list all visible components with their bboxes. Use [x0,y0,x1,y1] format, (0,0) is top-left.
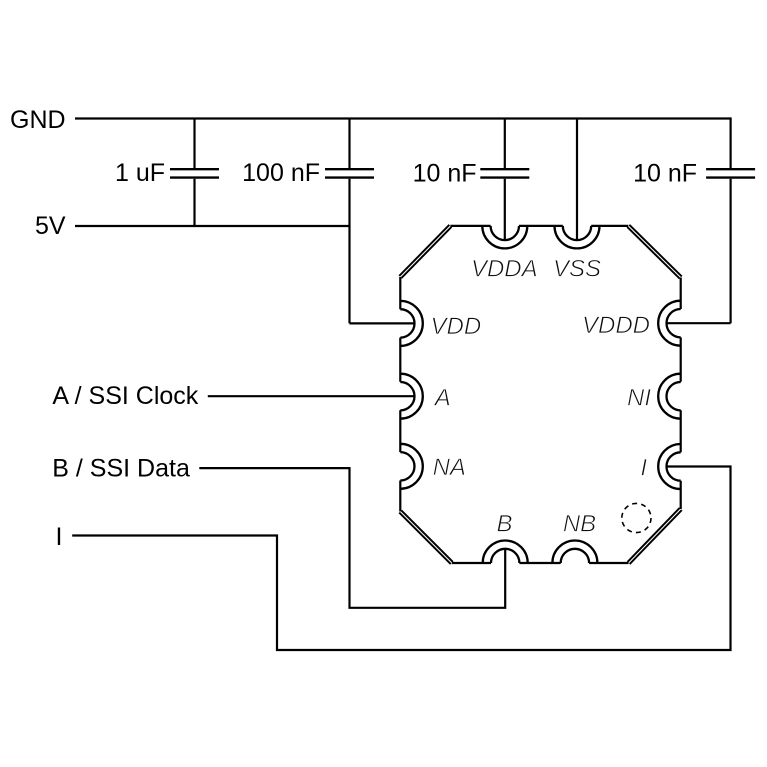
svg-text:100 nF: 100 nF [242,159,320,187]
pin B [483,541,528,564]
pin label VDDA [471,256,538,283]
wire 5V rail [75,225,350,227]
pin NA [400,444,423,489]
pin label I [640,454,647,481]
label C1 value 1 uF [115,159,165,187]
capacitor C4 10 nF [706,169,755,323]
net label 5V [35,212,66,240]
capacitor C2 100 nF [325,119,374,324]
svg-text:I: I [640,454,647,481]
pin A [400,374,423,419]
net label A / SSI Clock [52,382,198,410]
pin label A [433,385,451,412]
net label GND [10,106,66,134]
pin label VDD [431,313,482,340]
pin NB [552,541,597,564]
pin 1 indicator dashed circle [622,503,651,532]
pin VDDD [658,301,681,346]
wire A / SSI Clock to pin A [208,395,415,397]
U1 bottom-right corner chamfer [628,508,682,564]
pin I [658,444,681,489]
U1 bottom-left corner chamfer [399,510,453,564]
svg-text:VSS: VSS [553,256,601,283]
svg-text:10 nF: 10 nF [633,160,697,188]
svg-text:B / SSI Data: B / SSI Data [52,455,190,483]
wire I to pin I [72,467,730,651]
svg-text:GND: GND [10,106,66,134]
svg-text:VDDA: VDDA [471,256,538,283]
svg-text:NI: NI [627,385,651,412]
svg-text:NA: NA [433,454,466,481]
U1 top-right corner chamfer [627,225,682,279]
svg-text:I: I [56,523,63,551]
pin label VSS [553,256,601,283]
capacitor C1 1 uF [170,119,219,227]
svg-text:10 nF: 10 nF [413,160,477,188]
label C2 value 100 nF [242,159,320,187]
label C3 value 10 nF [413,160,477,188]
net label B / SSI Data [52,455,190,483]
wire VDDD to C4 [667,322,731,324]
svg-text:A: A [433,385,451,412]
svg-text:VDD: VDD [431,313,482,340]
pin NI [658,374,681,419]
pin label B [496,511,512,538]
wire VSS to GND rail [576,119,578,241]
net label I [56,523,63,551]
pin label NB [563,511,596,538]
capacitor C3 10 nF [480,119,529,241]
U1 top-left corner chamfer [399,225,451,278]
svg-text:A / SSI Clock: A / SSI Clock [52,382,198,410]
label C4 value 10 nF [633,160,697,188]
svg-text:5V: 5V [35,212,66,240]
pin label VDDD [582,312,650,339]
wire B / SSI Data to pin B [199,468,505,608]
IC U1 package outline [400,226,680,563]
svg-text:NB: NB [563,511,596,538]
wire GND rail [75,119,731,170]
svg-text:VDDD: VDDD [582,312,650,339]
svg-text:B: B [496,511,512,538]
pin label NI [627,385,651,412]
pin VDDA [482,226,527,249]
pin label NA [433,454,466,481]
pin VSS [555,226,600,249]
wire VDD to 5V [350,322,415,324]
svg-text:1 uF: 1 uF [115,159,165,187]
pin VDD [400,301,423,346]
